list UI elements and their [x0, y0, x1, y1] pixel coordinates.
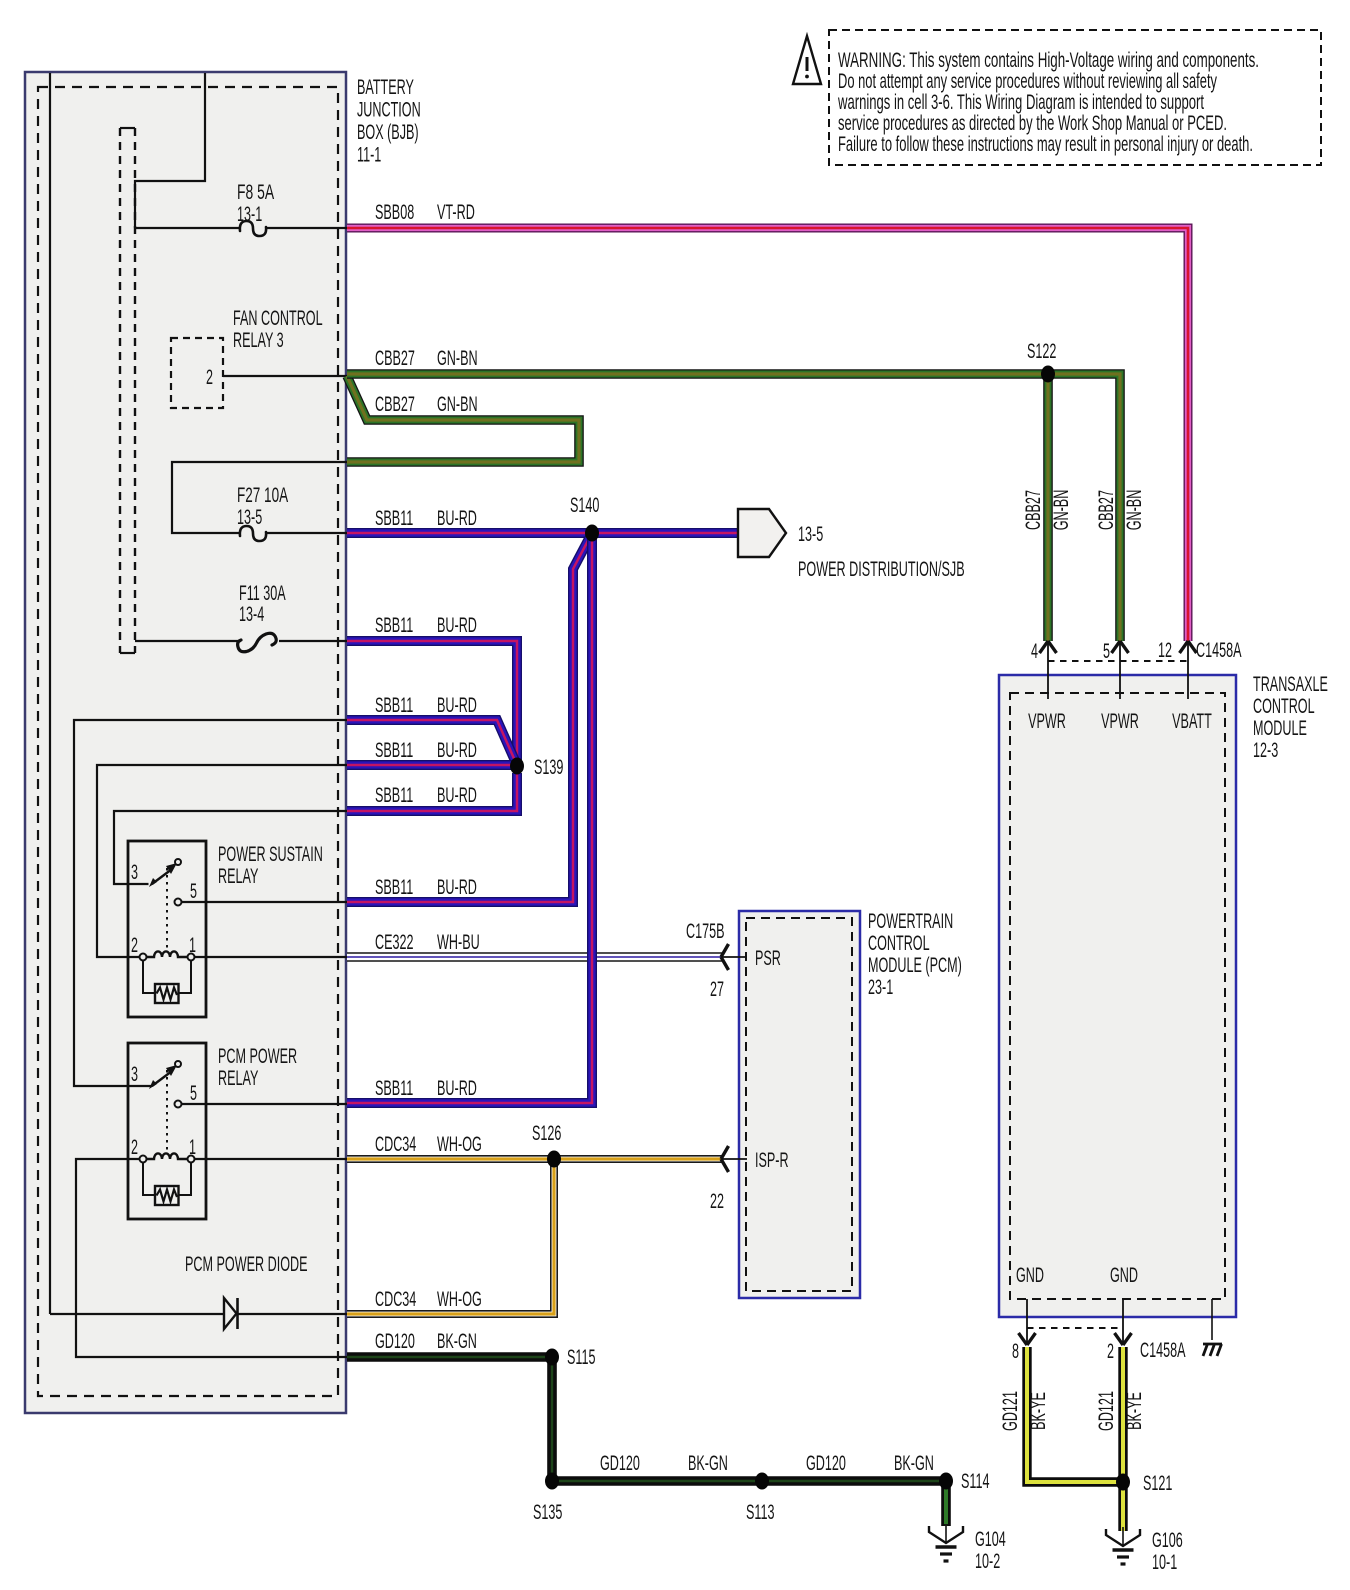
svg-text:POWER SUSTAIN: POWER SUSTAIN [218, 843, 323, 866]
svg-text:BU-RD: BU-RD [437, 739, 477, 762]
svg-text:S140: S140 [570, 494, 599, 517]
svg-text:Failure to follow these instru: Failure to follow these instructions may… [838, 133, 1253, 156]
svg-text:ISP-R: ISP-R [755, 1149, 789, 1172]
svg-text:CBB27: CBB27 [375, 393, 415, 416]
svg-text:WARNING: This system contains: WARNING: This system contains High-Volta… [838, 49, 1259, 72]
svg-text:SBB11: SBB11 [375, 876, 413, 899]
svg-text:GND: GND [1016, 1264, 1044, 1287]
svg-text:CONTROL: CONTROL [1253, 695, 1315, 718]
svg-text:3: 3 [131, 1063, 138, 1086]
svg-text:2: 2 [131, 1136, 138, 1159]
svg-text:PCM POWER DIODE: PCM POWER DIODE [185, 1253, 308, 1276]
svg-text:GD121: GD121 [999, 1391, 1022, 1431]
svg-text:VPWR: VPWR [1101, 710, 1139, 733]
svg-text:2: 2 [1107, 1340, 1114, 1363]
svg-text:C1458A: C1458A [1196, 639, 1242, 662]
svg-text:1: 1 [189, 1136, 196, 1159]
svg-text:GD121: GD121 [1095, 1391, 1118, 1431]
svg-text:CBB27: CBB27 [375, 347, 415, 370]
svg-text:WH-OG: WH-OG [437, 1133, 482, 1156]
svg-text:23-1: 23-1 [868, 976, 893, 999]
svg-text:F8 5A: F8 5A [237, 181, 274, 204]
svg-text:S115: S115 [567, 1346, 596, 1369]
svg-text:GN-BN: GN-BN [437, 347, 478, 370]
svg-text:F27 10A: F27 10A [237, 484, 288, 507]
svg-text:CONTROL: CONTROL [868, 932, 930, 955]
svg-text:PSR: PSR [755, 947, 781, 970]
svg-text:5: 5 [190, 880, 197, 903]
svg-text:BATTERY: BATTERY [357, 76, 414, 99]
svg-text:13-4: 13-4 [239, 603, 264, 626]
svg-text:FAN CONTROL: FAN CONTROL [233, 307, 323, 330]
svg-text:1: 1 [189, 934, 196, 957]
svg-text:S114: S114 [961, 1470, 990, 1493]
svg-text:G106: G106 [1152, 1529, 1183, 1552]
svg-text:RELAY: RELAY [218, 865, 258, 888]
svg-text:WH-BU: WH-BU [437, 931, 480, 954]
svg-text:POWERTRAIN: POWERTRAIN [868, 910, 953, 933]
svg-text:2: 2 [206, 366, 213, 389]
svg-text:BK-GN: BK-GN [894, 1452, 934, 1475]
svg-text:C1458A: C1458A [1140, 1339, 1186, 1362]
svg-text:GD120: GD120 [600, 1452, 640, 1475]
svg-text:4: 4 [1031, 640, 1038, 663]
svg-text:22: 22 [710, 1190, 724, 1213]
svg-text:BU-RD: BU-RD [437, 694, 477, 717]
svg-text:BU-RD: BU-RD [437, 1077, 477, 1100]
svg-text:CBB27: CBB27 [1022, 490, 1045, 530]
svg-text:VPWR: VPWR [1028, 710, 1066, 733]
svg-text:GN-BN: GN-BN [437, 393, 478, 416]
svg-text:VBATT: VBATT [1172, 710, 1212, 733]
svg-text:F11 30A: F11 30A [239, 582, 286, 605]
svg-text:GN-BN: GN-BN [1050, 490, 1073, 531]
svg-text:MODULE: MODULE [1253, 717, 1307, 740]
svg-text:SBB11: SBB11 [375, 507, 413, 530]
svg-text:BK-GN: BK-GN [688, 1452, 728, 1475]
svg-text:BU-RD: BU-RD [437, 507, 477, 530]
svg-text:BK-GN: BK-GN [437, 1330, 477, 1353]
svg-text:CDC34: CDC34 [375, 1288, 416, 1311]
svg-text:CE322: CE322 [375, 931, 414, 954]
svg-text:GD120: GD120 [375, 1330, 415, 1353]
svg-text:27: 27 [710, 978, 724, 1001]
svg-text:S122: S122 [1027, 340, 1056, 363]
svg-text:RELAY: RELAY [218, 1067, 258, 1090]
svg-text:BK-YE: BK-YE [1027, 1392, 1050, 1430]
svg-text:5: 5 [1103, 640, 1110, 663]
svg-text:PCM POWER: PCM POWER [218, 1045, 297, 1068]
svg-text:C175B: C175B [686, 920, 725, 943]
svg-text:13-5: 13-5 [237, 506, 262, 529]
svg-text:12-3: 12-3 [1253, 739, 1278, 762]
svg-text:S135: S135 [533, 1501, 562, 1524]
svg-text:GND: GND [1110, 1264, 1138, 1287]
svg-text:S113: S113 [746, 1501, 775, 1524]
svg-text:BOX (BJB): BOX (BJB) [357, 121, 419, 144]
svg-text:SBB11: SBB11 [375, 694, 413, 717]
svg-text:WH-OG: WH-OG [437, 1288, 482, 1311]
svg-text:3: 3 [131, 861, 138, 884]
svg-text:BK-YE: BK-YE [1123, 1392, 1146, 1430]
svg-text:8: 8 [1012, 1340, 1019, 1363]
svg-text:SBB08: SBB08 [375, 201, 414, 224]
svg-text:S126: S126 [532, 1122, 561, 1145]
svg-text:TRANSAXLE: TRANSAXLE [1253, 673, 1328, 696]
svg-text:SBB11: SBB11 [375, 784, 413, 807]
svg-text:S121: S121 [1143, 1472, 1172, 1495]
svg-text:10-1: 10-1 [1152, 1551, 1177, 1574]
svg-text:GD120: GD120 [806, 1452, 846, 1475]
svg-text:SBB11: SBB11 [375, 614, 413, 637]
svg-text:CDC34: CDC34 [375, 1133, 416, 1156]
svg-text:13-5: 13-5 [798, 523, 823, 546]
svg-text:S139: S139 [534, 756, 563, 779]
svg-text:13-1: 13-1 [237, 203, 262, 226]
svg-text:warnings in cell 3-6. This Wi: warnings in cell 3-6. This Wiring Diagra… [837, 91, 1204, 114]
svg-text:CBB27: CBB27 [1095, 490, 1118, 530]
svg-text:G104: G104 [975, 1528, 1006, 1551]
svg-text:10-2: 10-2 [975, 1550, 1000, 1573]
svg-text:GN-BN: GN-BN [1123, 490, 1146, 531]
svg-text:2: 2 [131, 934, 138, 957]
svg-text:BU-RD: BU-RD [437, 614, 477, 637]
svg-text:Do not attempt any service pro: Do not attempt any service procedures wi… [838, 70, 1217, 93]
svg-text:MODULE (PCM): MODULE (PCM) [868, 954, 962, 977]
svg-text:5: 5 [190, 1082, 197, 1105]
svg-text:BU-RD: BU-RD [437, 784, 477, 807]
svg-text:service procedures as directed: service procedures as directed by the Wo… [838, 112, 1227, 135]
svg-text:BU-RD: BU-RD [437, 876, 477, 899]
svg-text:12: 12 [1158, 639, 1172, 662]
svg-text:SBB11: SBB11 [375, 739, 413, 762]
svg-text:SBB11: SBB11 [375, 1077, 413, 1100]
svg-text:RELAY 3: RELAY 3 [233, 329, 284, 352]
svg-text:JUNCTION: JUNCTION [357, 99, 421, 122]
svg-text:POWER DISTRIBUTION/SJB: POWER DISTRIBUTION/SJB [798, 558, 965, 581]
svg-text:11-1: 11-1 [357, 144, 381, 167]
svg-text:VT-RD: VT-RD [437, 201, 475, 224]
